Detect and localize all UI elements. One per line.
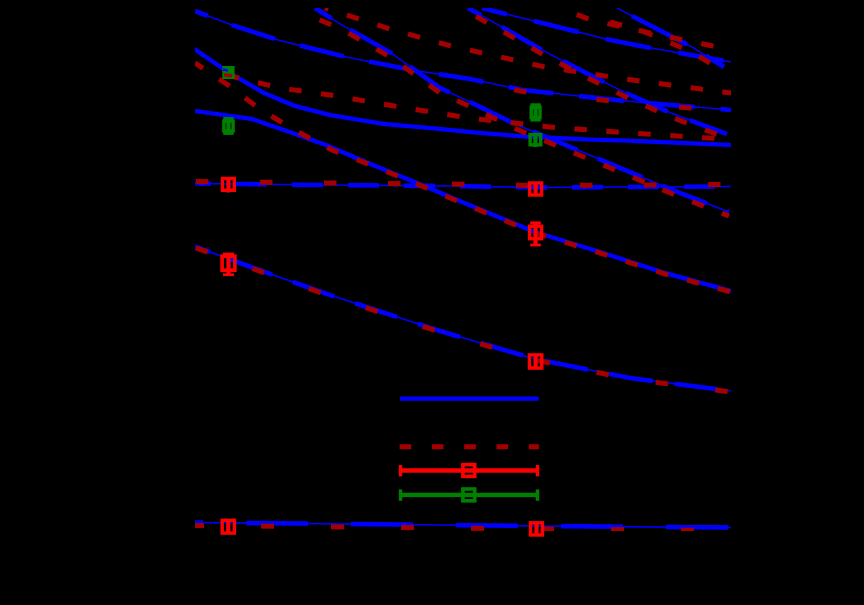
blue solid curve A	[195, 111, 731, 291]
thin blue underlay BT	[482, 8, 731, 62]
red dashed on D1	[195, 248, 731, 393]
blue dashed curve S3	[468, 8, 727, 134]
red open square marker R6	[222, 520, 234, 535]
red dashed on H2	[195, 526, 731, 531]
D1 diagonal: thin blue	[195, 247, 731, 392]
blue dashed curve S2	[315, 8, 729, 212]
red dashed on H1	[195, 182, 731, 186]
green filled square marker G1	[222, 66, 234, 79]
thin blue underlay S3	[468, 8, 727, 134]
thin blue underlay T1	[195, 11, 731, 110]
H1 horizontal line: thin blue	[195, 184, 731, 188]
legend blue solid line sample	[400, 396, 539, 400]
D1 diagonal: thick blue dashes	[195, 247, 731, 392]
legend red error bar sample	[401, 465, 538, 477]
red open square marker R5	[529, 355, 541, 368]
green open square marker G4	[530, 133, 541, 147]
legend red dashed line sample	[400, 444, 539, 449]
blue dashed curve T1	[195, 11, 731, 110]
red dashes on T1 tail	[470, 81, 731, 112]
thin blue underlay S4	[617, 8, 724, 67]
thin blue underlay S2	[315, 8, 729, 212]
red open square marker R1 with error bar	[223, 177, 235, 193]
legend	[400, 399, 539, 501]
red open square marker R7	[531, 522, 543, 537]
H2 bottom line: thick blue dashes	[195, 523, 731, 528]
legend green error bar sample	[401, 489, 538, 501]
green open square marker G3 with error bar	[530, 104, 540, 121]
red dashed twin of L1B	[222, 74, 731, 140]
blue dashed curve BT	[482, 8, 731, 62]
red dashed twin of A	[195, 63, 731, 292]
red open square marker R4 with error bar	[530, 222, 542, 246]
red dashed RS3	[468, 12, 727, 138]
blue dashed curve S4	[617, 8, 724, 67]
H1 horizontal line: thick blue dashes	[195, 184, 731, 188]
data markers	[222, 66, 542, 537]
H2 bottom line: thin blue	[195, 523, 731, 528]
red dashed RBT	[560, 8, 731, 50]
red dashed RT1	[325, 8, 731, 93]
red dashed RS2	[304, 13, 729, 216]
blue solid curve L1B	[190, 46, 731, 145]
red open square marker R2 with error bar	[222, 254, 235, 276]
red dashed RS4	[610, 22, 724, 72]
green open square marker G2 with error bar	[223, 118, 233, 135]
red open square marker R3 with error bar	[530, 182, 542, 197]
